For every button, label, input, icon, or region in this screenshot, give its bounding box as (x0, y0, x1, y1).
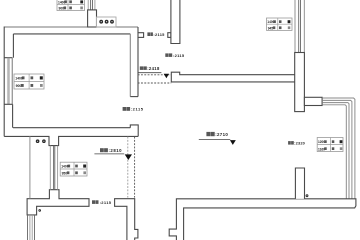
beam 2810 dashed lines (127, 137, 129, 198)
window W1 inner edge (11, 58, 13, 105)
floor height level triangle (230, 140, 236, 145)
annotation table T3 lower-left window (60, 162, 87, 176)
wall bottom-center L-shaped (115, 199, 138, 240)
wall B1 top-right room left wall (171, 0, 180, 44)
svg-text::2320: :2320 (294, 141, 305, 146)
beam 2810 underline (94, 153, 124, 155)
wall pillar right room left wall lower (295, 168, 304, 199)
svg-text::2115: :2115 (100, 200, 112, 205)
annotation table T2 left window (14, 74, 44, 89)
wall bottom-left with window block (27, 190, 89, 215)
wall band below window W3 (295, 53, 305, 112)
annotation table T1 top (cut by edge) (57, 0, 85, 11)
svg-text::2115: :2115 (153, 32, 165, 37)
svg-text:950: 950 (62, 171, 68, 175)
window W1 sill bottom (4, 103, 12, 105)
pipe dot bottom-left (38, 209, 41, 212)
svg-text:900: 900 (59, 7, 65, 11)
svg-text::2710: :2710 (215, 132, 228, 137)
svg-text:900: 900 (16, 84, 22, 88)
svg-text:945: 945 (268, 26, 274, 30)
wall W2 horizontal below top-right room (171, 72, 295, 82)
label door 2115 top doorway (100, 32, 305, 205)
chimney block (88, 10, 97, 27)
beam 2810 level triangle (125, 154, 132, 160)
wall top-left room bottom outer edge with notch (4, 136, 138, 145)
wall top-left room left inner upper (12, 34, 14, 58)
chimney window at top edge (88, 0, 95, 10)
wall top-left room right inner edge (129, 34, 131, 97)
window W5 bottom-left vertical (28, 215, 35, 240)
window W1 glass lines (8, 58, 9, 105)
wall top-left room top outer edge (4, 26, 138, 28)
bay window corner lines (322, 98, 355, 199)
door jamb D2 top doorway right (168, 33, 171, 38)
floor height underline (199, 139, 231, 141)
beam 2418 dashed lines (138, 75, 172, 83)
svg-text:1400: 1400 (15, 77, 23, 81)
wall top-left room top inner edge (13, 33, 130, 35)
bottom outer wall band with right chamfer (169, 199, 356, 240)
window W1 left wall sill top (4, 57, 12, 59)
pipe dot right (306, 194, 309, 197)
beam 2418 level triangle (164, 74, 169, 79)
svg-text::2418: :2418 (147, 66, 160, 71)
two pipe dots below wall (36, 139, 46, 143)
wall top-left room left outer edge (3, 27, 5, 137)
annotation table T5 bay window (317, 138, 343, 152)
window W3 top-right vertical window (295, 0, 304, 53)
window W4 mid-left vertical (50, 146, 57, 190)
svg-text::2115: :2115 (131, 107, 144, 112)
CJK blobs for labels (92, 32, 294, 204)
wall block right end of bottom wall (130, 125, 138, 136)
meter dots (99, 20, 114, 24)
door jamb D1 top doorway left (138, 33, 144, 38)
beam 2418 underline (138, 72, 162, 74)
annotation table T4 top-right window (267, 18, 293, 30)
wall top-left room right outer edge (137, 27, 139, 97)
svg-text::2115: :2115 (173, 53, 185, 58)
svg-text:1160: 1160 (318, 147, 325, 151)
svg-text::2810: :2810 (109, 148, 123, 153)
wall cap right wall bottom (130, 96, 138, 98)
wall top-left room bottom inner edge (13, 127, 130, 129)
meter box with three dots (97, 17, 117, 27)
thin wall left of lower-left room (29, 137, 31, 199)
wall stub right of band (304, 97, 322, 105)
wall top-left room left inner lower block (12, 104, 14, 127)
